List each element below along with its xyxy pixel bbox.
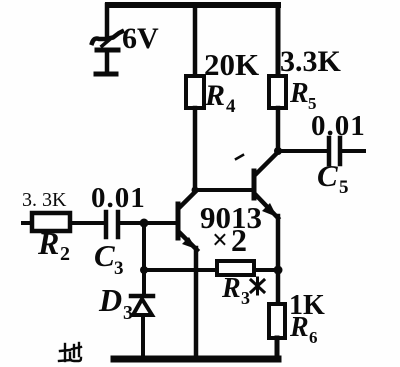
wire R4 branch drop <box>193 5 198 76</box>
wire R3 to node C <box>254 268 278 272</box>
svg-text:3: 3 <box>114 258 124 279</box>
svg-text:C: C <box>94 238 115 273</box>
svg-text:2: 2 <box>231 222 247 258</box>
node D junction at base <box>140 219 149 228</box>
svg-text:2: 2 <box>60 243 70 265</box>
wire Q1 emitter drop to ground rail <box>194 248 199 358</box>
wire node E to R3 <box>144 268 217 272</box>
wire D3 to ground rail <box>141 315 145 358</box>
svg-text:3: 3 <box>123 302 133 324</box>
svg-text:20K: 20K <box>204 47 259 82</box>
svg-text:D: D <box>98 282 122 318</box>
wire top supply rail <box>108 2 278 8</box>
resistor R6 1K <box>269 290 325 347</box>
svg-text:×: × <box>212 225 228 256</box>
wire R5 branch drop <box>276 5 281 76</box>
svg-text:4: 4 <box>226 96 236 117</box>
wire C3 to Q1 base <box>120 221 177 225</box>
capacitor C5 0.01 <box>311 110 366 198</box>
svg-text:3.3K: 3.3K <box>280 45 342 78</box>
speck mark near Q2 <box>236 155 243 159</box>
svg-text:0.01: 0.01 <box>311 110 366 142</box>
battery B1 6V <box>92 5 159 74</box>
capacitor C3 0.01 <box>91 182 146 279</box>
svg-text:3: 3 <box>241 288 250 308</box>
resistor R2 3.3K <box>22 189 70 265</box>
ground rail <box>114 356 278 363</box>
svg-text:R: R <box>289 312 309 343</box>
wire output to C5 <box>278 149 327 153</box>
svg-text:6: 6 <box>309 328 318 347</box>
wire node C to R6 <box>276 270 281 304</box>
label 9013 x2 <box>200 200 262 258</box>
svg-text:R: R <box>289 78 309 109</box>
wire Q2 emitter drop to node C <box>276 216 281 270</box>
wire node E to D3 <box>142 270 146 295</box>
resistor R4 20K <box>186 47 259 117</box>
svg-text:C: C <box>317 158 338 193</box>
svg-text:6V: 6V <box>122 22 159 55</box>
svg-text:R: R <box>37 225 59 261</box>
node C junction <box>274 266 283 275</box>
node A junction <box>192 187 199 194</box>
wire R4 to node A <box>193 108 198 190</box>
svg-text:5: 5 <box>339 177 349 198</box>
svg-text:0.01: 0.01 <box>91 182 146 214</box>
wire R6 to ground rail <box>275 338 280 358</box>
wire input stub <box>23 221 32 225</box>
wire node A to Q2 base <box>195 188 253 192</box>
resistor R3 <box>217 261 264 308</box>
node B junction <box>274 147 282 155</box>
diode D3 <box>98 282 153 324</box>
resistor R5 3.3K <box>269 45 342 113</box>
wire R5 to node B <box>276 108 281 152</box>
label ground (di) <box>59 343 81 361</box>
transistor Q2 (9013) <box>254 152 278 218</box>
wire node D down to node E <box>142 223 146 270</box>
transistor Q1 (9013) <box>178 191 197 250</box>
wire R2 to C3 <box>70 221 104 225</box>
svg-text:3. 3K: 3. 3K <box>22 189 67 211</box>
node E junction <box>140 266 148 274</box>
svg-text:R: R <box>204 79 225 112</box>
wire C5 output stub <box>342 149 364 153</box>
svg-text:R: R <box>221 273 241 304</box>
